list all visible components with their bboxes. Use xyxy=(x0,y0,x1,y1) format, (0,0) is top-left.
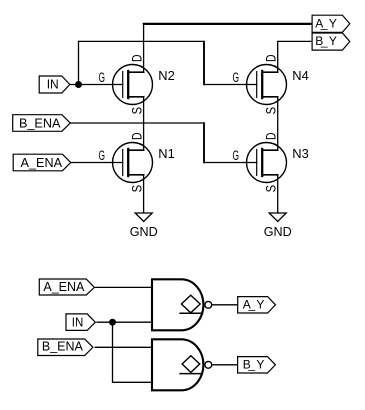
open-drain diamond symbol gate 2 xyxy=(180,356,202,374)
svg-text:A_ENA: A_ENA xyxy=(43,279,84,294)
wire gate2 output to B_Y xyxy=(212,364,237,366)
svg-text:IN: IN xyxy=(47,77,59,92)
wire B_ENA horizontal xyxy=(70,122,204,124)
wire IN to N2 gate xyxy=(70,84,123,86)
wire A_Y net horizontal (N2 drain to A_Y label) xyxy=(144,23,313,25)
wire N2 drain vertical xyxy=(143,24,145,72)
svg-text:G: G xyxy=(99,70,106,85)
svg-text:GND: GND xyxy=(264,224,292,239)
wire IN drop bottom xyxy=(112,322,114,382)
svg-text:B_Y: B_Y xyxy=(315,34,337,48)
node IN top label xyxy=(39,76,70,93)
inversion bubble gate 2 xyxy=(205,361,212,368)
node B_Y top label xyxy=(312,33,350,50)
transistor N4 xyxy=(247,65,287,105)
wire B_ENA drop xyxy=(203,123,205,163)
open-drain diamond symbol gate 1 xyxy=(180,295,202,313)
svg-text:S: S xyxy=(263,185,278,193)
wire B_ENA to N3 gate xyxy=(204,162,257,164)
junction IN node xyxy=(75,81,82,88)
svg-text:G: G xyxy=(99,148,106,163)
inversion bubble gate 1 xyxy=(205,301,212,308)
transistor N2 xyxy=(113,65,153,105)
svg-text:S: S xyxy=(129,107,144,115)
wire IN riser up xyxy=(78,41,80,84)
node A_Y bottom label xyxy=(238,297,276,313)
wire IN horizontal top xyxy=(79,40,205,42)
svg-text:D: D xyxy=(129,54,144,62)
svg-text:N4: N4 xyxy=(292,68,309,83)
wire A_ENA to gate1 xyxy=(96,286,153,288)
wire N2 source to N1 drain xyxy=(143,97,145,150)
svg-text:N1: N1 xyxy=(158,146,175,161)
node A_Y top label xyxy=(312,15,350,32)
wire gate1 output to A_Y xyxy=(212,304,237,306)
wire A_ENA to N1 gate xyxy=(71,162,123,164)
svg-text:N3: N3 xyxy=(292,146,309,161)
svg-text:D: D xyxy=(263,54,278,62)
open-drain NAND gate 1 body xyxy=(152,279,203,330)
node A_ENA top label xyxy=(13,154,70,171)
svg-text:D: D xyxy=(263,132,278,140)
junction IN node bottom xyxy=(109,319,116,326)
wire IN drop to N4 gate xyxy=(203,41,205,84)
wire B_ENA to gate2 xyxy=(95,346,152,348)
node B_ENA bottom label xyxy=(38,339,93,356)
wire N4 drain vertical xyxy=(277,41,279,72)
svg-text:N2: N2 xyxy=(158,68,175,83)
svg-text:S: S xyxy=(263,107,278,115)
svg-text:B_Y: B_Y xyxy=(243,358,265,372)
wire IN to gate1 xyxy=(97,321,152,323)
svg-text:G: G xyxy=(233,70,240,85)
svg-text:IN: IN xyxy=(72,314,84,329)
svg-text:A_Y: A_Y xyxy=(315,16,337,30)
svg-text:B_ENA: B_ENA xyxy=(42,339,83,354)
svg-text:A_Y: A_Y xyxy=(243,298,265,312)
wire IN to gate2 xyxy=(113,381,153,383)
node IN bottom label xyxy=(66,314,95,331)
svg-text:B_ENA: B_ENA xyxy=(19,115,61,130)
ground right xyxy=(269,213,286,222)
wire B_Y net horizontal (N4 drain to B_Y label) xyxy=(278,40,312,42)
wire N3 source to GND xyxy=(277,175,279,213)
svg-text:S: S xyxy=(129,185,144,193)
transistor N1 xyxy=(113,143,153,183)
svg-text:A_ENA: A_ENA xyxy=(21,155,63,170)
svg-text:GND: GND xyxy=(130,224,158,239)
wire IN to N4 gate horizontal xyxy=(204,84,257,86)
ground left xyxy=(135,213,152,222)
open-drain NAND gate 2 body xyxy=(152,339,203,390)
svg-text:D: D xyxy=(129,132,144,140)
node B_Y bottom label xyxy=(238,357,276,373)
node A_ENA bottom label xyxy=(39,279,94,295)
wire N1 source to GND xyxy=(143,175,145,213)
wire N4 source to N3 drain xyxy=(277,97,279,150)
svg-text:G: G xyxy=(233,148,240,163)
transistor N3 xyxy=(247,143,287,183)
node B_ENA top label xyxy=(13,115,70,132)
